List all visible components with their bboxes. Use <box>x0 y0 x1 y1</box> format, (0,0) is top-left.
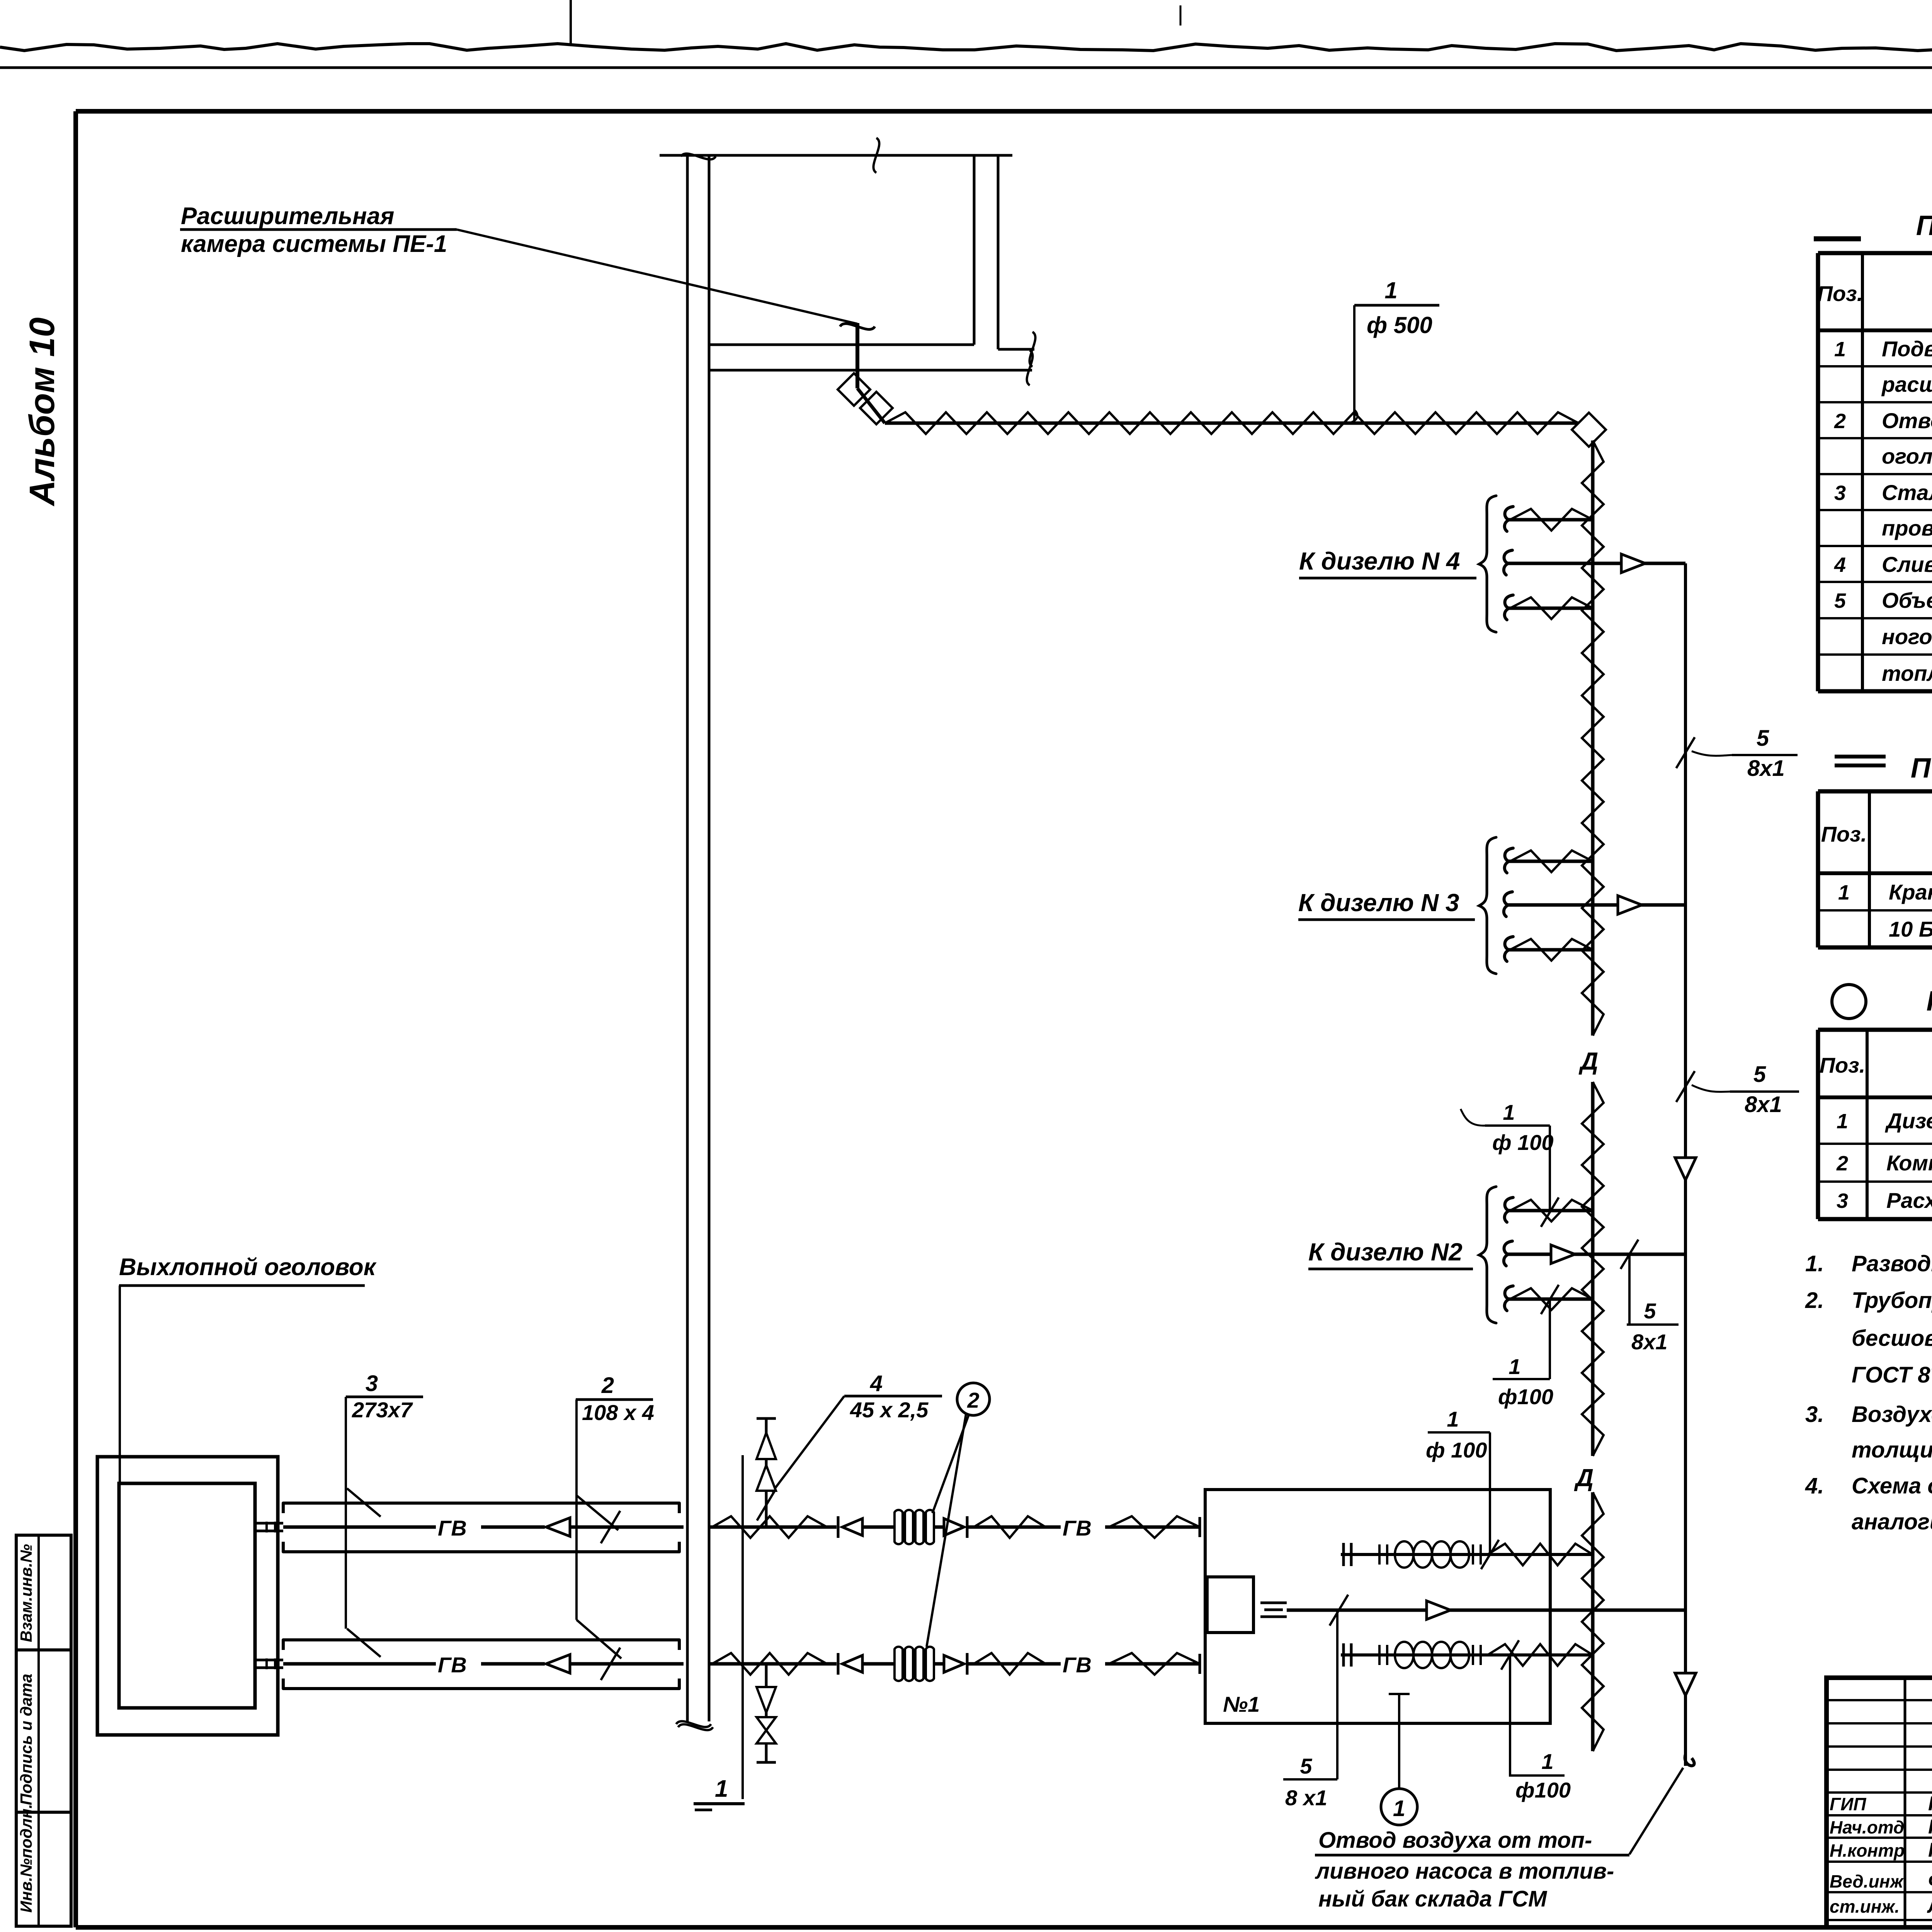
leader to drain valve <box>772 1396 844 1492</box>
svg-text:Д: Д <box>1578 1047 1598 1075</box>
chamber right wall (double line) <box>973 155 976 345</box>
muffler line upper (pos 1 intake) <box>1341 1553 1593 1556</box>
section axis line 1 <box>742 1455 744 1799</box>
floor upper-right stub <box>998 348 1034 351</box>
svg-text:ГИП: ГИП <box>1830 1794 1866 1814</box>
svg-text:8 x1: 8 x1 <box>1285 1786 1327 1810</box>
svg-text:1: 1 <box>715 1776 728 1802</box>
table 2 title mark (double dash) <box>1835 755 1886 759</box>
callout 5/8x1 near N2 <box>1621 1240 1638 1269</box>
svg-text:Поз.: Поз. <box>1817 281 1863 306</box>
svg-text:8x1: 8x1 <box>1745 1092 1782 1117</box>
title block verticals left part <box>1904 1678 1906 1927</box>
svg-text:Стальной защитный футляр выхл: Стальной защитный футляр выхлопнога труб… <box>1882 480 1932 505</box>
svg-text:Подвод воздуха к дизелю на гор: Подвод воздуха к дизелю на горение топли… <box>1882 337 1932 361</box>
svg-text:Объединенный отвод воздуха: Объединенный отвод воздуха от топлив- <box>1882 588 1932 612</box>
svg-text:Разводку трубопроводов систе: Разводку трубопроводов системы см. лист … <box>1852 1251 1932 1276</box>
svg-text:Кран пробно- спускной сальн: Кран пробно- спускной сальниковый <box>1889 880 1932 904</box>
svg-text:5: 5 <box>1834 589 1846 612</box>
building wall (left, double line) <box>686 155 689 1721</box>
duct top break flag <box>840 323 875 329</box>
svg-text:1: 1 <box>1447 1407 1459 1431</box>
svg-text:ф 100: ф 100 <box>1492 1130 1554 1155</box>
duct zigzag insulation <box>885 412 1578 434</box>
svg-text:Отвод выхлопных газов от дизел: Отвод выхлопных газов от дизеля к выхлоп… <box>1882 408 1932 433</box>
svg-text:1: 1 <box>1838 881 1850 904</box>
svg-text:8x1: 8x1 <box>1631 1330 1667 1354</box>
svg-text:4: 4 <box>1834 553 1846 577</box>
table 1 title mark <box>1814 236 1861 241</box>
svg-text:ный бак склада ГСМ: ный бак склада ГСМ <box>1318 1886 1548 1912</box>
svg-text:273x7: 273x7 <box>352 1398 413 1422</box>
callout 5/8x1 at diesel <box>1336 1610 1338 1779</box>
vertical duct zigzag middle <box>1582 1082 1604 1456</box>
svg-text:108 x 4: 108 x 4 <box>582 1400 654 1425</box>
wall bottom break <box>678 1724 713 1730</box>
svg-text:Альбом 10: Альбом 10 <box>22 317 62 506</box>
chamber floor double line <box>709 344 974 346</box>
svg-text:1: 1 <box>1393 1796 1405 1821</box>
drawing frame <box>76 109 1932 114</box>
branch group to diesel N3 <box>1505 848 1513 873</box>
svg-text:Расходный бак топлива ёмк.: Расходный бак топлива ёмк. 250л. <box>1886 1188 1932 1213</box>
svg-text:провода: провода <box>1882 516 1932 540</box>
svg-text:2: 2 <box>1834 410 1846 433</box>
fold mark top-left <box>570 0 572 43</box>
svg-text:ГВ: ГВ <box>1063 1653 1092 1677</box>
drain valve stack below lower pipe <box>765 1664 768 1762</box>
svg-text:Воздуховоды выполнить из т: Воздуховоды выполнить из тонколистовой с… <box>1852 1402 1932 1427</box>
table 3 title mark (circle) <box>1832 985 1866 1019</box>
vertical air duct column <box>1591 440 1595 1036</box>
svg-text:ГВ: ГВ <box>1063 1516 1092 1540</box>
svg-text:4: 4 <box>870 1371 883 1396</box>
svg-text:45 x 2,5: 45 x 2,5 <box>850 1398 929 1422</box>
svg-text:топливный бак.: топливный бак. <box>1882 661 1932 685</box>
protective casing pos3 around lower pipe <box>283 1640 679 1650</box>
svg-text:камера системы ПЕ-1: камера системы ПЕ-1 <box>181 231 447 257</box>
branch group to diesel N4 <box>1505 507 1513 531</box>
callout 1/ph100 at diesel bottom <box>1501 1640 1519 1670</box>
diesel exhaust line to collector <box>1287 1609 1685 1612</box>
position balloon 1 <box>1398 1694 1400 1789</box>
vertical duct zigzag lower <box>1582 1492 1604 1751</box>
main horizontal air duct phi500 (pos 1) <box>885 422 1578 425</box>
svg-text:4.: 4. <box>1805 1473 1824 1498</box>
svg-text:Юдин: Юдин <box>1928 1793 1932 1815</box>
svg-text:ГОСТ 8734 -75 *.: ГОСТ 8734 -75 *. <box>1852 1362 1932 1388</box>
svg-text:расширительной камеры систем: расширительной камеры системы ПЕ-1 <box>1881 372 1932 396</box>
svg-text:ф100: ф100 <box>1498 1384 1553 1409</box>
generator box on diesel unit <box>1207 1577 1253 1633</box>
paper top edge (scan) <box>0 44 1932 51</box>
svg-text:3: 3 <box>1837 1189 1848 1213</box>
svg-text:3: 3 <box>1834 481 1846 505</box>
svg-text:5: 5 <box>1757 726 1769 751</box>
svg-text:8x1: 8x1 <box>1747 756 1785 781</box>
svg-text:Н.контр: Н.контр <box>1830 1840 1905 1861</box>
corner diamond 1 <box>838 373 870 406</box>
muffler line lower <box>1341 1653 1593 1656</box>
svg-text:ф 100: ф 100 <box>1426 1438 1487 1462</box>
leader from air vent note <box>1629 1768 1683 1854</box>
paper top line <box>0 66 1932 69</box>
svg-text:1: 1 <box>1834 338 1846 361</box>
exhaust head outer box <box>97 1457 278 1735</box>
collector tick <box>1676 1071 1695 1102</box>
svg-text:ф 500: ф 500 <box>1367 312 1432 338</box>
svg-text:10 Б 9 Б к 1.: 10 Б 9 Б к 1. <box>1889 917 1932 941</box>
svg-text:1.: 1. <box>1805 1251 1824 1276</box>
svg-text:Д: Д <box>1574 1464 1594 1492</box>
svg-text:толщиной ф 100 - б = 0,5 мм;: толщиной ф 100 - б = 0,5 мм; ф 500 – б =… <box>1852 1437 1932 1463</box>
svg-text:Трубопроводы газовыхлопа: Трубопроводы газовыхлопа выполнить из ст… <box>1852 1288 1932 1313</box>
svg-text:3.: 3. <box>1805 1402 1824 1427</box>
GV pipe lower: segment with label <box>283 1662 436 1666</box>
valve and bellows on upper pipe <box>837 1516 840 1538</box>
svg-text:Отвод воздуха от топ-: Отвод воздуха от топ- <box>1318 1828 1592 1853</box>
exhaust head inner box <box>119 1483 255 1708</box>
collector label 5/8x1 upper <box>1676 737 1695 768</box>
GV pipe upper: segment with label <box>283 1526 436 1529</box>
callout 1/ph100 for N2 upper branch <box>1485 1124 1550 1127</box>
svg-text:Поз.: Поз. <box>1820 1053 1866 1077</box>
svg-text:ф100: ф100 <box>1515 1778 1571 1802</box>
svg-text:К дизелю N 3: К дизелю N 3 <box>1298 889 1459 917</box>
wall top break <box>681 153 716 159</box>
callout 1/ph500 <box>1354 304 1439 307</box>
svg-text:1: 1 <box>1503 1100 1515 1124</box>
ceiling break mark <box>873 138 879 173</box>
drain valve stack above upper pipe <box>765 1418 768 1527</box>
svg-text:1: 1 <box>1509 1354 1520 1379</box>
title block <box>1827 1678 1932 1927</box>
svg-text:К дизелю N 4: К дизелю N 4 <box>1299 547 1460 575</box>
branch group to diesel N2 <box>1505 1197 1513 1222</box>
svg-text:1: 1 <box>1837 1110 1848 1133</box>
svg-text:бесшовных холоднотянутых тр: бесшовных холоднотянутых труб ф 108 х4 п… <box>1852 1326 1932 1351</box>
svg-text:Подпись и дата: Подпись и дата <box>17 1674 35 1805</box>
svg-text:2: 2 <box>967 1388 979 1412</box>
vertical duct zigzag upper <box>1582 440 1604 1036</box>
svg-text:ГВ: ГВ <box>438 1653 467 1677</box>
svg-text:3: 3 <box>366 1371 378 1396</box>
leader curve <box>1692 1085 1730 1092</box>
svg-text:Поз.: Поз. <box>1821 822 1867 846</box>
svg-text:Расширительная: Расширительная <box>181 203 394 230</box>
svg-text:№1: №1 <box>1223 1692 1260 1716</box>
duct corner diamond <box>1572 413 1606 447</box>
svg-text:ного насоса и фильтров в: ного насоса и фильтров в склад ГСМ, в <box>1882 624 1932 649</box>
bellows compensator pos2 (upper) <box>895 1510 934 1544</box>
flow arrow down lower <box>1675 1673 1696 1696</box>
svg-text:1: 1 <box>1541 1749 1553 1774</box>
svg-text:Взам.инв.№: Взам.инв.№ <box>17 1544 35 1642</box>
svg-text:5: 5 <box>1300 1754 1312 1778</box>
fold mark top-mid <box>1180 5 1182 26</box>
corner diamond 2 <box>860 392 893 424</box>
svg-text:Инв.№подлн.: Инв.№подлн. <box>17 1804 35 1913</box>
svg-text:Сливконденсата из выхлопного: Сливконденсата из выхлопного трубопровод… <box>1882 552 1932 577</box>
floor line end break <box>1027 350 1032 385</box>
svg-text:Козлов: Козлов <box>1928 1839 1932 1861</box>
svg-text:5: 5 <box>1753 1062 1766 1087</box>
svg-text:Козлов: Козлов <box>1928 1816 1932 1838</box>
callout 1/ph100 diesel intake <box>1428 1431 1490 1434</box>
svg-text:Перечень запорной арматуры.: Перечень запорной арматуры. <box>1911 753 1932 784</box>
protective casing pos3 around upper pipe <box>283 1503 679 1513</box>
svg-text:2.: 2. <box>1805 1288 1824 1313</box>
diesel unit N1 outline <box>1205 1490 1550 1723</box>
svg-text:1: 1 <box>1384 277 1397 303</box>
svg-text:Дизель-электрический агрегат: Дизель-электрический агрегат АСДА-200-Т/… <box>1885 1109 1932 1133</box>
svg-text:аналогична обвязке дизеля: аналогична обвязке дизеля №1. <box>1852 1509 1932 1534</box>
svg-text:Выхлопной оголовок: Выхлопной оголовок <box>119 1254 377 1281</box>
svg-text:5: 5 <box>1644 1299 1656 1323</box>
svg-text:Нач.отд: Нач.отд <box>1830 1817 1904 1837</box>
svg-text:К дизелю N2: К дизелю N2 <box>1308 1238 1463 1266</box>
collector end curl <box>1685 1754 1694 1766</box>
title block horizontals left part <box>1827 1699 1932 1701</box>
GV exhaust pipe upper: stub from head <box>255 1522 283 1525</box>
GV exhaust pipe lower: stub from head <box>255 1659 283 1662</box>
wall break above end <box>676 1721 711 1727</box>
bellows compensator pos2 (lower) <box>895 1647 934 1681</box>
svg-text:Перечень основного оборудов: Перечень основного оборудования. <box>1926 986 1932 1017</box>
position balloon 2 (bellows) <box>957 1383 990 1415</box>
svg-text:Схема обвязки трубопровода: Схема обвязки трубопроводами дизелей №№2… <box>1852 1473 1932 1498</box>
battery/ground mark <box>1260 1602 1287 1604</box>
svg-text:Вед.инж: Вед.инж <box>1830 1871 1904 1891</box>
svg-text:ст.инж.: ст.инж. <box>1830 1896 1900 1917</box>
svg-text:Французов: Французов <box>1928 1870 1932 1892</box>
leader to duct <box>457 230 857 324</box>
stub end break <box>1029 332 1035 367</box>
air duct drop from chamber <box>855 323 859 388</box>
air collector pipe 5/8x1 <box>1684 563 1687 1766</box>
svg-text:оголовку.: оголовку. <box>1882 444 1932 468</box>
callout 1/ph100 for N2 lower branch <box>1493 1378 1550 1380</box>
flow arrow down on collector <box>1675 1158 1696 1180</box>
leader down to head <box>119 1286 121 1483</box>
svg-text:ГВ: ГВ <box>438 1516 467 1540</box>
svg-text:2: 2 <box>1836 1152 1848 1175</box>
valve and bellows on lower pipe <box>837 1653 840 1675</box>
duct 45deg corner <box>857 388 885 423</box>
svg-text:Компенсатор сильфонный КМ-I: Компенсатор сильфонный КМ-I <box>1886 1151 1932 1175</box>
svg-text:2: 2 <box>601 1373 614 1398</box>
chamber ceiling line <box>660 154 1012 157</box>
flow arrow on exhaust line <box>1427 1601 1451 1619</box>
left attribute strip <box>16 1535 71 1926</box>
svg-text:ливного насоса в топлив-: ливного насоса в топлив- <box>1315 1859 1614 1884</box>
svg-text:Перечень назначения трубопро: Перечень назначения трубопроводов <box>1916 210 1932 241</box>
